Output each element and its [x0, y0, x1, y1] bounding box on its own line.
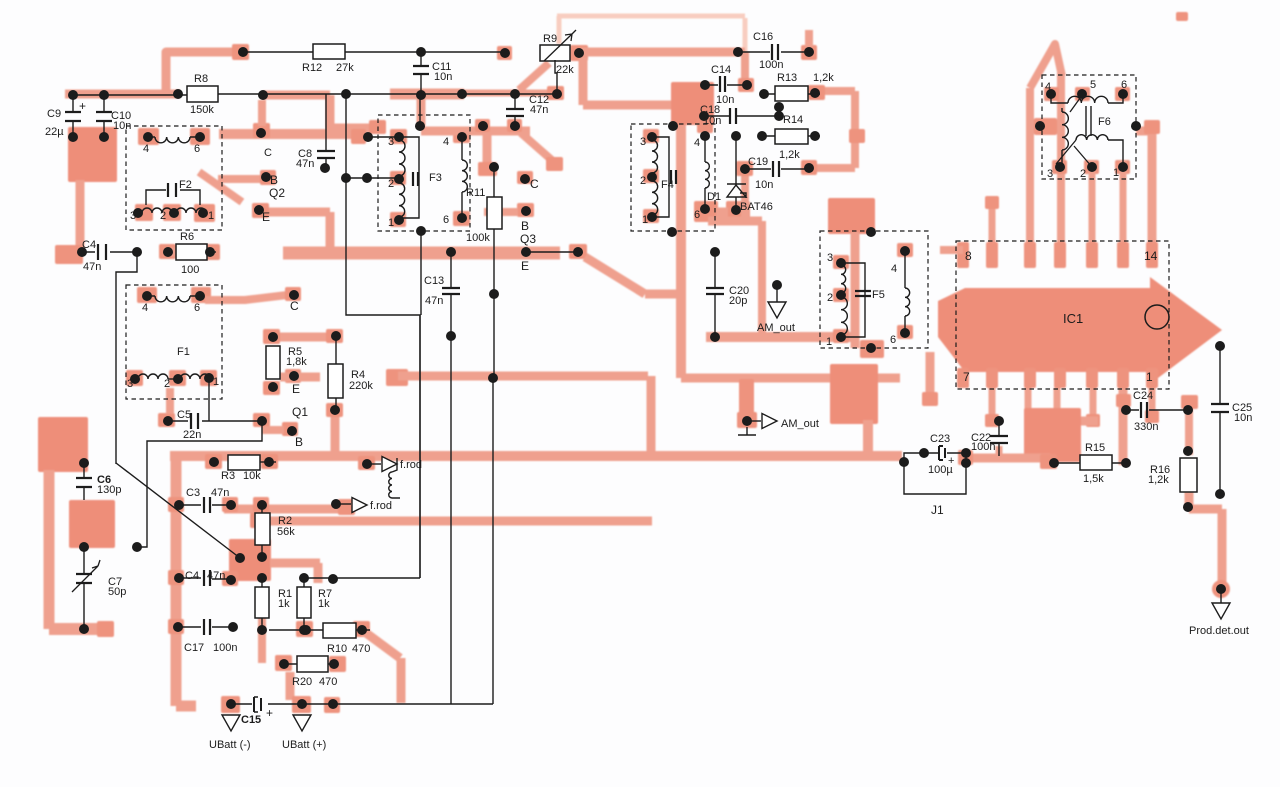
svg-text:470: 470	[319, 676, 337, 688]
svg-text:B: B	[270, 173, 278, 187]
node C22-top	[994, 416, 1004, 426]
svg-text:4: 4	[694, 137, 700, 149]
node D1-top	[731, 131, 741, 141]
resistor R10	[269, 623, 370, 655]
node Q1-E	[289, 371, 308, 419]
svg-text:C5: C5	[177, 409, 191, 421]
inductor F3-left	[399, 137, 419, 218]
capacitor C19	[745, 156, 809, 191]
node F3-w3	[363, 132, 373, 142]
inductor F5-right	[905, 251, 910, 333]
wire pcb-trace F2 pads	[135, 128, 215, 222]
node F3-pin4	[443, 132, 467, 148]
node C5-left	[163, 416, 173, 426]
wire pcb-trace top-left riser	[166, 52, 236, 94]
svg-text:UBatt (+): UBatt (+)	[282, 739, 326, 751]
wire pcb-trace C12 pads	[475, 119, 522, 132]
svg-text:47n: 47n	[296, 158, 314, 170]
capacitor C20	[706, 252, 749, 337]
svg-text:2: 2	[388, 178, 394, 190]
wire pcb-trace pad Q1-B	[262, 422, 298, 436]
node R4-bottom	[330, 405, 340, 415]
svg-text:150k: 150k	[190, 104, 214, 116]
wire pcb-trace C16 right pad	[801, 30, 817, 60]
node C5-right	[257, 416, 267, 426]
node C14-left	[700, 80, 710, 90]
svg-text:27k: 27k	[336, 62, 354, 74]
node R6-right	[205, 247, 215, 257]
resistor R6	[176, 231, 207, 276]
node AMout2-node	[742, 416, 752, 426]
node F3-bottom-edge	[416, 226, 426, 236]
svg-text:1,8k: 1,8k	[286, 356, 307, 368]
svg-text:Q1: Q1	[292, 405, 308, 419]
svg-text:D1: D1	[707, 191, 721, 203]
node R1-bottom	[257, 625, 267, 635]
node F6-pin3	[1047, 162, 1065, 180]
wire pcb-trace pad R4-top	[326, 329, 343, 343]
node C17-right	[228, 622, 238, 632]
output f.rod-1	[367, 457, 422, 499]
node R16-bottom	[1183, 502, 1193, 512]
wire pcb-trace R5 pads	[263, 329, 280, 395]
node Q2-C	[256, 128, 272, 159]
node R11-mid	[489, 289, 499, 299]
svg-text:1: 1	[388, 217, 394, 229]
wire pcb-trace left edge column	[44, 470, 55, 629]
wire pcb-trace F1 pads	[126, 287, 217, 386]
output f.rod-2	[336, 498, 392, 513]
output Prod.det.out	[1189, 589, 1249, 637]
node F3-w2	[362, 173, 372, 183]
wire pcb-trace R9 diag	[519, 63, 549, 90]
wire pcb-trace blob C18	[671, 82, 714, 125]
wire pcb-trace blob under C9/C10	[68, 127, 117, 182]
svg-text:56k: 56k	[277, 526, 295, 538]
wire pcb-trace R1 column	[258, 595, 266, 663]
svg-text:C16: C16	[753, 31, 773, 43]
svg-text:E: E	[292, 382, 300, 396]
capacitor F4-cap	[671, 170, 676, 184]
svg-text:470: 470	[352, 643, 370, 655]
svg-text:2: 2	[1080, 168, 1086, 180]
resistor R20	[284, 656, 337, 688]
svg-text:E: E	[262, 210, 270, 224]
wire pcb-trace C20 bottom bar	[706, 332, 855, 342]
svg-text:100k: 100k	[466, 232, 490, 244]
svg-text:1k: 1k	[278, 598, 290, 610]
wire diag-C6-Q1	[116, 463, 240, 558]
resistor R9 (trimmer)	[540, 30, 576, 76]
wire pcb-trace R10 pads	[296, 621, 370, 637]
wire pcb-trace F3 stem	[417, 94, 426, 126]
wire pcb-trace C24 right column	[1181, 395, 1198, 455]
svg-text:C19: C19	[748, 156, 768, 168]
wire pcb-trace R4-bottom stem	[331, 417, 340, 455]
capacitor C4b	[179, 570, 231, 586]
inductor F6-vert	[1062, 108, 1068, 167]
node mid-94a	[341, 89, 351, 99]
wire pcb-trace C14 stub	[738, 52, 754, 92]
node R12-left	[238, 47, 248, 57]
wire pcb-trace R16 bottom L	[1189, 492, 1222, 588]
wire pcb-trace Q2 base arm	[218, 175, 260, 183]
capacitor C12	[506, 94, 549, 126]
wire pcb-trace blob C6-C7	[69, 500, 115, 548]
node F3-pin6	[443, 213, 467, 226]
svg-text:2: 2	[827, 292, 833, 304]
node C12-top-corner	[510, 89, 520, 99]
node R13-right	[810, 88, 820, 98]
wire pcb-trace F3 pads	[390, 129, 470, 227]
wire pcb-trace F1 to Q1-C arm	[205, 295, 287, 300]
svg-text:R20: R20	[292, 676, 312, 688]
node F4-top-edge	[668, 121, 678, 131]
svg-text:4: 4	[443, 136, 449, 148]
wire pcb-trace IC pin stubs top	[985, 161, 1123, 252]
wire pcb-trace antenna peak	[1030, 44, 1062, 88]
capacitor C24	[1126, 390, 1188, 433]
node F3-pin1	[388, 215, 404, 229]
wire pcb-trace Q2 emitter pad	[252, 203, 269, 218]
svg-text:3: 3	[827, 252, 833, 264]
node net-333	[328, 574, 338, 584]
svg-text:6: 6	[1121, 79, 1127, 91]
wire pcb-trace F5 bottom pad	[860, 340, 884, 358]
capacitor C11	[413, 52, 452, 95]
wire pcb-trace Q2 collector pad	[253, 123, 270, 138]
resistor R12	[302, 44, 354, 74]
node C10-bottom	[99, 132, 109, 142]
svg-text:47n: 47n	[530, 104, 548, 116]
wire F1-pin1-drop	[208, 378, 210, 421]
inductor F5-left	[841, 263, 865, 337]
svg-text:100µ: 100µ	[928, 464, 953, 476]
diode D1 BAT46	[707, 136, 773, 213]
wire pcb-trace left bottom bar	[49, 621, 114, 637]
svg-text:100n: 100n	[971, 441, 995, 453]
node F5-pin4	[891, 246, 910, 275]
resistor R4	[328, 336, 373, 410]
svg-text:C4: C4	[185, 570, 199, 582]
svg-text:47n: 47n	[207, 570, 225, 582]
svg-text:B: B	[295, 435, 303, 449]
node C10-top	[99, 90, 109, 100]
wire pcb-trace ic8 stub	[940, 246, 963, 254]
jumper J1	[904, 455, 966, 517]
wire pcb-trace F5-bottom blob	[830, 364, 878, 455]
svg-text:100: 100	[181, 264, 199, 276]
svg-text:14: 14	[1144, 249, 1158, 263]
node R14-right	[810, 131, 820, 141]
svg-text:C9: C9	[47, 108, 61, 120]
wire pcb-trace bar y375-right	[681, 374, 900, 383]
node prod-node	[1216, 584, 1226, 594]
wire net-94 left	[73, 94, 187, 96]
svg-text:C14: C14	[711, 64, 731, 76]
node R13-left	[759, 89, 769, 99]
wire pcb-trace C8 bar	[219, 129, 361, 139]
node C15-left	[226, 699, 236, 709]
svg-text:4: 4	[142, 302, 148, 314]
node F4-pin1	[642, 212, 657, 226]
wire pcb-trace IC pads bottom row	[957, 368, 1158, 388]
node R11-top	[489, 162, 499, 172]
wire pcb-trace Q3-E diag	[585, 257, 678, 294]
wire F3-bottom-drop	[420, 231, 422, 315]
capacitor C25	[1211, 346, 1252, 494]
node F5-top-edge	[866, 227, 876, 237]
node R9-right	[574, 48, 584, 58]
resistor R2	[255, 505, 295, 557]
svg-text:2: 2	[160, 210, 166, 222]
node C4a-right	[132, 247, 142, 257]
svg-text:1: 1	[642, 214, 648, 226]
wire pcb-trace Q3-E pad	[569, 244, 587, 259]
node R15-right	[1121, 458, 1131, 468]
svg-text:3: 3	[640, 136, 646, 148]
svg-text:R8: R8	[194, 73, 208, 85]
node C9-top	[68, 90, 78, 100]
wire pcb-trace C19 net	[708, 161, 762, 336]
wire Q3-E-wire	[526, 251, 578, 253]
wire R12-row	[243, 51, 505, 53]
wire pcb-trace pin1 column	[1116, 388, 1131, 465]
svg-text:C: C	[264, 147, 272, 159]
capacitor C15	[241, 697, 273, 726]
wire pcb-trace fat mid bar	[283, 247, 560, 260]
capacitor F5-cap	[855, 291, 871, 296]
node R11-bottom	[488, 373, 498, 383]
svg-text:1: 1	[826, 336, 832, 348]
node Q3-B	[520, 206, 536, 246]
wire pcb-trace top bar y16 (inner layer)	[557, 16, 745, 52]
svg-text:47n: 47n	[425, 295, 443, 307]
capacitor C10	[96, 95, 131, 137]
capacitor C3	[179, 487, 231, 513]
svg-text:1,2k: 1,2k	[1148, 474, 1169, 486]
svg-text:330n: 330n	[1134, 421, 1158, 433]
wire pcb-trace C22 stub	[996, 446, 1003, 456]
node C8-bottom	[320, 163, 330, 173]
svg-text:2: 2	[640, 175, 646, 187]
svg-text:22n: 22n	[183, 429, 201, 441]
node C9-bottom	[68, 132, 78, 142]
wire pcb-trace blob left-edge	[38, 417, 88, 472]
wire pcb-trace stray pad	[1176, 12, 1188, 21]
node F5-bottom-edge	[866, 343, 876, 353]
filter F6 box	[1042, 75, 1136, 179]
wire pcb-trace central bottom blob	[1024, 408, 1098, 462]
node R14-left	[757, 131, 767, 141]
node C17-left	[173, 622, 183, 632]
svg-text:F1: F1	[177, 346, 190, 358]
svg-text:3: 3	[127, 378, 133, 390]
resistor R15	[1054, 442, 1126, 485]
capacitor C9	[45, 95, 86, 138]
node R4-top	[331, 331, 341, 341]
node mid-94b	[416, 90, 426, 100]
inductor F4-right	[705, 136, 709, 209]
node R8-left	[173, 89, 183, 99]
node C24-right	[1183, 405, 1193, 415]
capacitor C23	[924, 433, 966, 476]
wire pcb-trace IC1 arrow body	[938, 277, 1222, 384]
wire C18-up	[778, 107, 780, 116]
node C7-bottom	[79, 624, 89, 634]
svg-text:R3: R3	[221, 470, 235, 482]
wire pcb-trace pad C3-right	[222, 497, 269, 512]
node Q1-C	[289, 290, 299, 313]
wire pcb-trace R10 right arm	[362, 630, 401, 703]
wire R9-wiper	[555, 60, 557, 94]
inductor F6-bottom	[1056, 135, 1123, 167]
inductor F1-top	[147, 291, 205, 314]
capacitor C7	[72, 547, 126, 629]
svg-text:10n: 10n	[703, 115, 721, 127]
wire pcb-trace Q2 collector stem	[258, 100, 266, 126]
svg-text:2: 2	[164, 378, 170, 390]
capacitor C4a	[82, 239, 137, 273]
capacitor C8	[296, 94, 335, 170]
node C3-left	[174, 500, 184, 510]
svg-text:C24: C24	[1133, 390, 1153, 402]
wire C4a-branch	[116, 252, 137, 464]
wire UBatt-row	[231, 703, 493, 705]
node Q3-E	[521, 247, 531, 273]
wire C23-left-wire	[904, 453, 924, 462]
svg-text:6: 6	[194, 302, 200, 314]
resistor R1	[255, 578, 292, 630]
svg-text:AM_out: AM_out	[781, 418, 819, 430]
node C12-bottom	[510, 121, 520, 131]
wire R6-right-stub	[207, 251, 216, 253]
capacitor C13	[424, 252, 460, 336]
node R5-top	[268, 332, 278, 342]
node R16-top	[1183, 446, 1193, 456]
wire pcb-trace center bar y94	[390, 93, 560, 94]
wire pcb-trace Q2 base pad	[260, 170, 276, 185]
svg-text:220k: 220k	[349, 380, 373, 392]
inductor F3-right	[462, 137, 467, 218]
node J1-right	[961, 458, 971, 468]
node C18-up-node	[774, 102, 784, 112]
wire pcb-trace left rail	[176, 456, 196, 706]
wire pcb-trace F6 pads	[1044, 87, 1130, 174]
node R10-left	[301, 625, 311, 635]
node mid-94c	[457, 89, 467, 99]
capacitor F3-cap	[413, 172, 418, 186]
svg-text:1,2k: 1,2k	[779, 149, 800, 161]
node F5-pin6	[890, 328, 910, 346]
svg-text:F3: F3	[429, 172, 442, 184]
node F5-pin1	[826, 332, 846, 348]
wire pcb-trace bar C23-R15	[958, 450, 1057, 469]
wire pcb-trace pad R4-bottom	[326, 403, 343, 417]
wire net-94 right	[218, 93, 557, 95]
filter F4 box	[631, 124, 715, 231]
node Q1-B	[287, 426, 303, 449]
resistor R16	[1148, 458, 1197, 492]
node C11-top	[416, 47, 426, 57]
svg-text:6: 6	[890, 334, 896, 346]
node F2-pin4	[143, 132, 153, 155]
svg-text:10n: 10n	[434, 71, 452, 83]
svg-text:C15: C15	[241, 714, 261, 726]
svg-text:10k: 10k	[243, 470, 261, 482]
node UBattP-node	[297, 699, 307, 709]
wire v346	[345, 94, 347, 178]
wire pcb-trace R9 bottom pad	[547, 86, 564, 100]
node blob-arm	[132, 542, 142, 552]
node C25-bottom	[1215, 489, 1225, 499]
wire pcb-trace R6 pads	[159, 244, 220, 260]
node R9-wiper-node	[552, 89, 562, 99]
inductor F1-bottom	[127, 373, 219, 390]
ic IC1 circle	[1145, 305, 1169, 329]
wire pcb-trace F6 left-edge pad	[1034, 118, 1057, 135]
svg-text:f.rod: f.rod	[370, 500, 392, 512]
resistor R14	[762, 114, 820, 161]
svg-text:+: +	[79, 99, 86, 113]
wire C13-drop	[450, 336, 452, 704]
filter F3 box	[378, 115, 470, 231]
wire pcb-trace AM-out2 stub	[737, 379, 757, 428]
wire pcb-trace v930	[922, 352, 938, 406]
node C16-left	[733, 47, 743, 57]
wire pcb-trace small blob left	[55, 245, 83, 264]
svg-text:B: B	[521, 219, 529, 233]
wire v346-lower	[346, 178, 420, 578]
svg-text:100n: 100n	[213, 642, 237, 654]
node C13-bottom	[446, 331, 456, 341]
wire pcb-trace Q1 blob arm	[270, 563, 320, 583]
node F4-bottom-edge	[667, 227, 677, 237]
node F4-pin6	[694, 204, 710, 221]
node R20-right	[329, 659, 339, 669]
svg-text:1k: 1k	[318, 598, 330, 610]
svg-text:C13: C13	[424, 275, 444, 287]
wire pcb-trace central column	[676, 95, 686, 378]
wire pcb-trace C15 pads	[221, 696, 340, 713]
svg-text:C: C	[290, 299, 299, 313]
svg-text:R12: R12	[302, 62, 322, 74]
resistor R7	[297, 578, 332, 630]
svg-text:IC1: IC1	[1063, 311, 1083, 326]
wire pcb-trace blob stem	[76, 180, 85, 250]
node J1-left	[899, 457, 909, 467]
node frod1	[362, 459, 372, 469]
node frod2	[331, 499, 341, 509]
node F5-pin3	[827, 252, 846, 268]
node net333-bottom	[328, 699, 338, 709]
wire pcb-trace bar y521	[250, 513, 652, 528]
wire pcb-trace rail pads	[168, 497, 184, 634]
svg-text:130p: 130p	[97, 484, 121, 496]
node C18-left	[699, 111, 709, 121]
resistor R3	[221, 455, 261, 482]
svg-text:47n: 47n	[211, 487, 229, 499]
wire pcb-trace pad C8-row-left	[369, 120, 386, 134]
wire pcb-trace R5-R4 top arm	[280, 333, 330, 342]
wire F2-bottom-left	[133, 212, 138, 214]
node C20-bottom	[710, 332, 720, 342]
transformer F6-core	[1086, 106, 1091, 136]
svg-text:6: 6	[194, 143, 200, 155]
svg-text:R13: R13	[777, 72, 797, 84]
wire F3-pin3-wire	[368, 136, 399, 138]
node F6-pin2	[1080, 162, 1097, 180]
